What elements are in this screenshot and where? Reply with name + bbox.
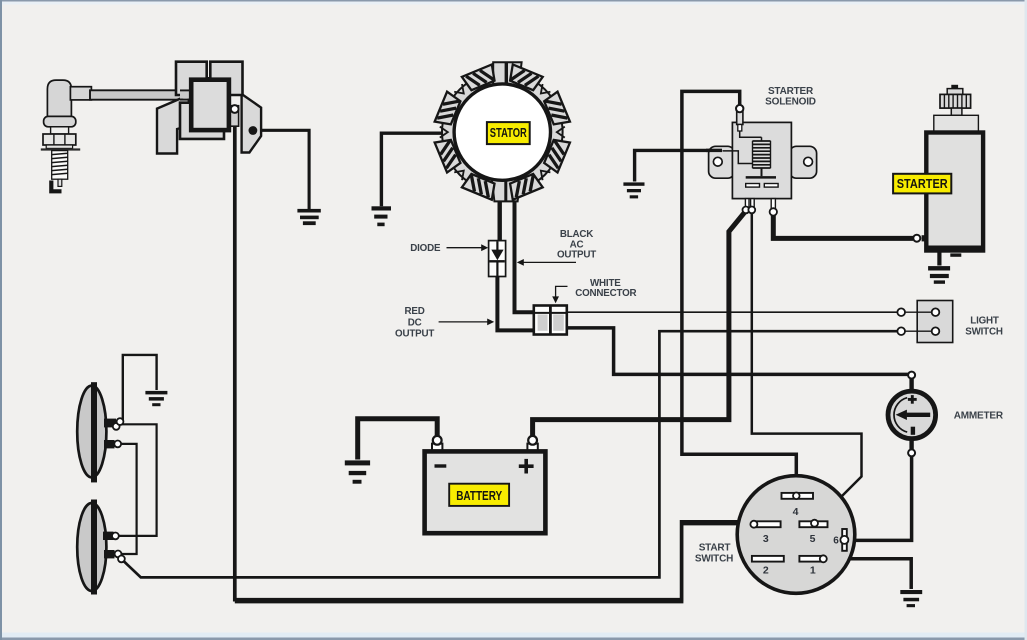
svg-text:STATOR: STATOR [490,126,527,140]
wire: solenoid top to start switch terminal 4 [682,91,796,493]
ground: starter ground [928,266,950,284]
wire: upper headlight to ground loop [123,355,157,422]
wire: black ac output stator to connector [515,194,535,312]
coil wire overlap [180,91,194,98]
coil lower lamination [180,103,224,139]
wire: upper headlight to lower headlight (outer) [117,424,157,536]
solenoid plunger and contacts [761,168,763,176]
solenoid internal wiring [723,132,762,164]
solenoid coil spring [753,141,771,168]
light switch [897,301,952,343]
battery negative post [432,444,442,453]
wire: battery positive to solenoid [533,213,745,439]
ground: solenoid ground [623,182,644,198]
battery positive post [527,444,537,453]
wire: solenoid coil to ground [635,150,722,181]
start switch terminal 6 [842,529,847,551]
wire: upper headlight to lower headlight (inner) [117,444,137,554]
ground: start switch ground [900,590,922,607]
coil left wing [157,95,189,154]
start switch [737,476,855,594]
wire: stator to diode (red dc top) [498,194,502,242]
svg-text:BATTERY: BATTERY [456,489,503,503]
coil right wing [242,94,262,153]
wire: start switch terminal 1 to ground [826,559,912,589]
starter motor [893,85,983,257]
wire: red dc output diode to connector [497,276,534,331]
spark plug [41,80,92,191]
svg-text:OUTPUT: OUTPUT [557,250,596,261]
coil ground dot [249,126,258,135]
wire: starter motor ground stub [937,251,941,266]
solenoid left ear [709,146,735,178]
diode D1 [489,241,506,277]
svg-text:3: 3 [763,533,769,545]
starter body [926,133,983,251]
svg-text:DC: DC [408,317,422,328]
svg-text:1: 1 [810,565,816,577]
svg-text:STARTER: STARTER [897,177,948,191]
spark plug hex [43,134,76,145]
battery minus sign [435,464,447,467]
wire: stator left lead to ground [381,133,446,206]
solenoid top terminal [737,112,743,125]
upper headlight [77,382,123,482]
starter pinion gear [940,94,971,108]
spark plug flange [41,148,80,150]
wire: solenoid to starter motor [773,214,913,238]
spark plug neck [51,127,69,134]
svg-text:SOLENOID: SOLENOID [765,97,816,108]
starter gear shaft tick [951,85,958,88]
wire: coil core to ground (right dot wire) [252,130,309,209]
lower headlight [77,500,125,595]
wire: solenoid ground wire over ear [706,149,722,152]
battery case [425,451,546,533]
starter top cap [934,115,979,132]
wire: connector to light switch top (thin) [566,311,900,313]
spark plug boot [47,80,71,117]
ground: stator ground [372,206,392,226]
starter label [893,174,951,194]
start switch terminal 1 [799,556,822,562]
start switch terminal 5 [799,521,827,527]
wire: magneto kill wire to start switch terminal 3 [235,111,751,602]
upper headlight terminals [104,419,116,428]
wire: battery negative to ground [358,419,438,460]
start switch terminal 4 [782,493,814,499]
wire: connector to ammeter top [566,328,909,375]
svg-text:SWITCH: SWITCH [695,554,733,565]
svg-text:LIGHT: LIGHT [970,316,999,327]
ground: headlight ground [145,391,167,406]
wire: solenoid S terminal to start switch terminal 5 [752,211,862,522]
svg-text:DIODE: DIODE [410,243,441,254]
ignition coil assembly [157,62,261,154]
starter terminal [922,235,927,241]
svg-text:2: 2 [763,565,769,577]
solenoid body [732,122,791,198]
svg-text:OUTPUT: OUTPUT [395,329,434,340]
coil terminal tab [229,106,239,127]
wire: light switch bottom to headlights [121,331,899,577]
solenoid bottom terminals [745,199,749,208]
battery label [449,484,509,506]
svg-text:CONNECTOR: CONNECTOR [575,288,636,299]
start switch terminal 2 [752,556,784,562]
svg-text:SWITCH: SWITCH [965,326,1003,337]
stator [435,62,570,201]
spark plug tip electrode [58,179,62,186]
white connector [534,306,567,335]
coil top lamination [176,62,243,95]
lower headlight terminals [103,532,114,540]
svg-text:STARTER: STARTER [768,86,814,97]
solenoid right ear [789,146,816,178]
start switch terminal 3 [757,521,781,527]
starter solenoid [709,105,817,216]
ground: coil ground [297,209,320,225]
svg-text:4: 4 [793,506,799,518]
ground: battery ground [345,460,370,483]
ammeter [888,372,936,457]
svg-text:RED: RED [405,306,425,317]
stator label [487,122,530,144]
spark plug threads [52,151,68,180]
wire: ammeter bottom to start switch terminal 6 [845,455,912,540]
coil core [191,80,229,130]
battery plus sign [519,464,534,468]
svg-text:5: 5 [810,533,816,545]
coil kill terminal [231,105,239,113]
svg-text:6: 6 [833,536,839,547]
svg-text:AMMETER: AMMETER [954,410,1004,421]
svg-text:START: START [699,543,731,554]
spark plug wire to coil [90,90,193,99]
battery [425,436,546,533]
